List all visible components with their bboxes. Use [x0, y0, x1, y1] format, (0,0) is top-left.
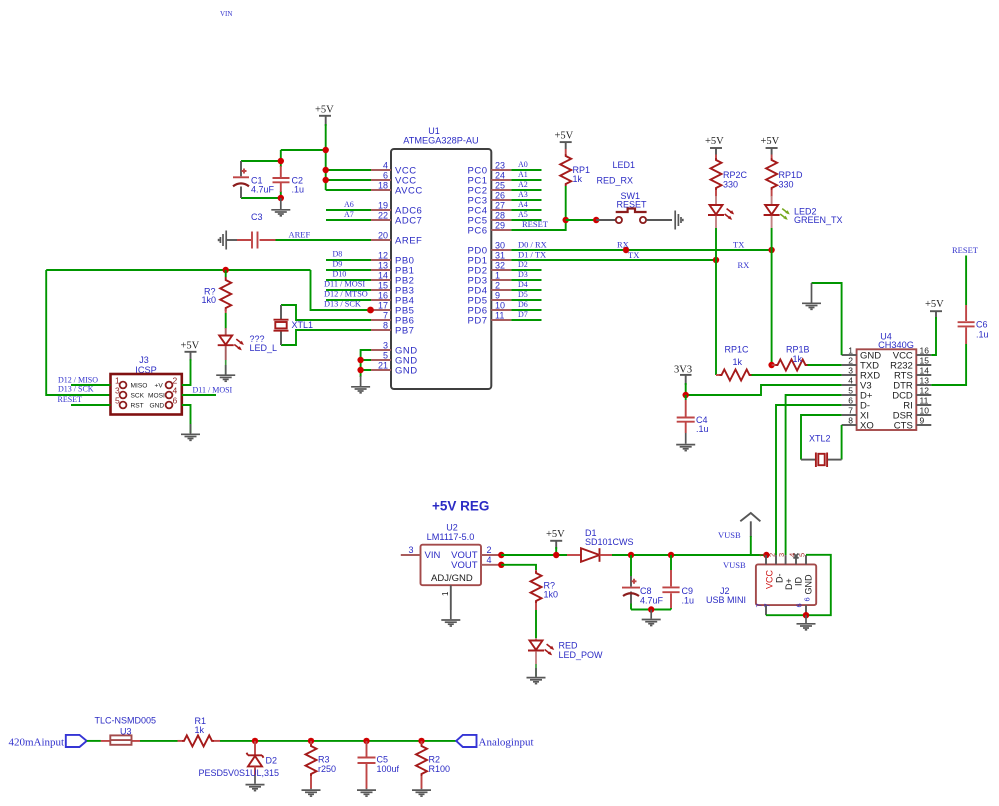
U4 pin 10 DSR	[893, 406, 932, 422]
LED LED1	[708, 196, 734, 260]
wire XI to XTL2	[801, 415, 842, 460]
svg-text:13: 13	[378, 261, 388, 271]
svg-text:GND: GND	[804, 574, 814, 595]
svg-text:1: 1	[441, 591, 450, 596]
svg-text:AREF: AREF	[395, 236, 422, 247]
svg-text:12: 12	[378, 251, 388, 261]
svg-text:CTS: CTS	[894, 421, 913, 432]
svg-text:LED1: LED1	[613, 160, 636, 170]
ground LED_L	[216, 360, 235, 381]
wire D12/MISO to J3	[58, 376, 111, 386]
ground U4 pin1	[802, 283, 821, 309]
wire RESET to J3	[58, 395, 111, 405]
wire SCK rail (pin13 LED)	[46, 270, 310, 395]
resistor R? 1k0 (LED_L)	[201, 270, 231, 329]
IC U4 CH340G	[857, 332, 917, 431]
svg-text:30: 30	[495, 241, 505, 251]
J2 pin 2 D-	[768, 553, 785, 583]
svg-text:3: 3	[408, 545, 413, 555]
ground J2	[797, 615, 816, 630]
ground C8/C9	[642, 610, 661, 626]
svg-text:PESD5V0S1UL,315: PESD5V0S1UL,315	[199, 768, 280, 778]
svg-text:1k: 1k	[573, 174, 583, 184]
svg-text:A6: A6	[344, 200, 354, 209]
junction SW1	[593, 217, 599, 223]
U1 pin 30 PD0	[468, 241, 512, 257]
ground AREF (sideways left)	[219, 231, 227, 250]
J2 pin 7 shield	[755, 603, 772, 615]
svg-text:RP1D: RP1D	[779, 170, 804, 180]
U1 pin 23 PC0	[468, 161, 512, 177]
junction J2 VCC	[763, 552, 769, 558]
junction rail R?	[223, 267, 229, 273]
svg-text:3: 3	[115, 386, 120, 396]
U1 pin 16 PB4	[371, 291, 414, 307]
capacitor C4 .1u	[677, 395, 709, 434]
svg-text:r250: r250	[318, 764, 336, 774]
svg-text:4.7uF: 4.7uF	[640, 596, 664, 606]
svg-text:RESET: RESET	[522, 219, 549, 229]
wire D8	[326, 250, 371, 261]
junction 3V3	[683, 392, 689, 398]
power +5V at RP1D	[761, 136, 780, 155]
svg-text:PB7: PB7	[395, 326, 414, 337]
U1 pin 22 ADC7	[371, 211, 422, 227]
svg-text:D5: D5	[518, 290, 528, 299]
svg-text:1k: 1k	[733, 357, 743, 367]
svg-text:+5V: +5V	[315, 105, 334, 116]
ground below C2	[271, 198, 290, 216]
svg-text:C8: C8	[640, 586, 652, 596]
U1 pin 15 PB3	[371, 281, 414, 297]
wire A3	[511, 190, 541, 200]
svg-text:RST: RST	[131, 402, 144, 409]
svg-text:TLC-NSMD005: TLC-NSMD005	[95, 716, 157, 726]
svg-text:VOUT: VOUT	[451, 560, 478, 571]
wire 3V3 to V3	[686, 383, 842, 395]
svg-text:3: 3	[848, 366, 853, 376]
svg-text:LM1117-5.0: LM1117-5.0	[427, 532, 475, 542]
svg-text:100uf: 100uf	[377, 764, 400, 774]
svg-text:26: 26	[495, 191, 505, 201]
svg-text:7: 7	[848, 406, 853, 416]
wire D5	[511, 290, 541, 300]
fuse U3 TLC-NSMD005	[95, 716, 157, 745]
U1 pin 17 PB5	[371, 301, 414, 317]
junction dots C2	[278, 158, 284, 164]
regulator U2 LM1117-5.0	[421, 523, 482, 586]
svg-text:+5V: +5V	[181, 341, 200, 352]
wire PC6 RESET to SW1	[511, 219, 565, 230]
LED LED_L	[218, 328, 277, 360]
resistor RP1C 1k	[716, 345, 842, 381]
ground LED_POW	[527, 664, 546, 684]
U1 pin 20 AREF	[371, 231, 422, 247]
svg-text:+5V: +5V	[705, 136, 724, 147]
U4 pin 5 D+	[842, 386, 873, 402]
svg-text:GND: GND	[150, 402, 165, 409]
wire A7	[326, 210, 371, 220]
resistor RP1D 330	[766, 155, 803, 197]
U1 pin 32 PD2	[468, 261, 512, 277]
svg-text:.1u: .1u	[976, 330, 989, 340]
diode D1 SD101CWS	[567, 528, 634, 562]
U1 pin 2 PD4	[468, 281, 512, 297]
U1 pin 18 AVCC	[371, 181, 423, 197]
svg-text:RESET: RESET	[58, 395, 83, 404]
svg-text:XTL2: XTL2	[809, 434, 831, 444]
junction C9	[668, 552, 674, 558]
svg-text:1: 1	[758, 553, 767, 557]
svg-text:24: 24	[495, 171, 505, 181]
svg-text:+5V: +5V	[546, 529, 565, 540]
ground U1	[351, 376, 370, 393]
junction PB5	[367, 307, 374, 314]
wire A4	[511, 200, 541, 210]
U4 pin 8 XO	[842, 416, 874, 432]
U4 pin 15 R232	[890, 356, 931, 372]
svg-text:2: 2	[487, 545, 492, 555]
U1 pin 19 ADC6	[371, 201, 422, 217]
U1 pin 11 PD7	[468, 311, 512, 327]
svg-text:J3: J3	[139, 355, 149, 365]
U1 pin 13 PB1	[371, 261, 414, 277]
U2 pin 4 VOUT	[481, 555, 501, 565]
U1 pin 12 PB0	[371, 251, 414, 267]
svg-text:USB MINI: USB MINI	[706, 595, 746, 605]
svg-text:3: 3	[383, 341, 388, 351]
U1 pin 26 PC3	[468, 191, 512, 207]
wire J3 MOSI out	[182, 386, 233, 396]
svg-text:10: 10	[495, 301, 505, 311]
power +5V at U4 VCC	[925, 299, 944, 319]
U1 pin 28 PC5	[468, 211, 512, 227]
U1 pin 21 GND	[371, 361, 418, 377]
wire A0	[511, 160, 541, 170]
svg-text:D-: D-	[775, 574, 785, 584]
svg-text:22: 22	[378, 211, 388, 221]
svg-text:A0: A0	[518, 160, 528, 169]
svg-text:D10: D10	[333, 270, 347, 279]
svg-text:RP1C: RP1C	[725, 345, 750, 355]
U2 pin 3 VIN	[401, 545, 421, 555]
U1 pin 25 PC2	[468, 181, 512, 197]
junction C5	[363, 738, 369, 744]
U1 pin 8 PB7	[371, 321, 414, 337]
svg-text:2: 2	[173, 376, 178, 386]
U4 pin 4 V3	[842, 376, 872, 392]
svg-text:CH340G: CH340G	[878, 340, 914, 350]
svg-text:A7: A7	[344, 210, 354, 219]
svg-text:4.7uF: 4.7uF	[251, 185, 275, 195]
crystal XTL1	[274, 305, 314, 345]
svg-text:D11 / MOSI: D11 / MOSI	[193, 386, 233, 395]
wire D6	[511, 300, 541, 310]
wire XO to XTL2	[841, 425, 843, 460]
svg-text:6: 6	[803, 597, 812, 601]
wire U4 GND hook	[812, 283, 842, 355]
svg-text:2: 2	[848, 356, 853, 366]
svg-text:330: 330	[723, 180, 738, 190]
svg-text:+5V: +5V	[925, 299, 944, 310]
U4 pin 14 RTS	[894, 366, 931, 382]
connector J2 USB MINI	[706, 564, 816, 605]
junction RX	[623, 247, 629, 253]
svg-text:6: 6	[848, 396, 853, 406]
svg-text:D4: D4	[518, 280, 528, 289]
svg-text:9: 9	[920, 416, 925, 426]
svg-text:1: 1	[495, 271, 500, 281]
svg-text:U1: U1	[428, 126, 440, 136]
wire A2	[511, 180, 541, 190]
svg-text:XTL1: XTL1	[292, 320, 314, 330]
LED LED_POW RED	[528, 638, 603, 664]
wire U1 GND bus	[361, 350, 371, 377]
svg-text:14: 14	[920, 366, 930, 376]
svg-text:TX: TX	[628, 250, 639, 260]
svg-text:15: 15	[378, 281, 388, 291]
svg-text:D+: D+	[784, 578, 794, 590]
U1 pin 6 VCC	[371, 171, 417, 187]
wire PD0 RX long	[511, 240, 771, 251]
power flag VUSB	[718, 513, 760, 555]
U2 pin 1 ADJ	[441, 585, 451, 610]
svg-text:D13 / SCK: D13 / SCK	[58, 385, 94, 394]
svg-text:8: 8	[848, 416, 853, 426]
svg-text:5: 5	[848, 386, 853, 396]
svg-text:D8: D8	[333, 250, 343, 259]
svg-text:1: 1	[115, 376, 120, 386]
ground SW1 (sideways right)	[675, 211, 683, 230]
svg-text:4: 4	[383, 161, 388, 171]
svg-text:6: 6	[795, 603, 804, 607]
U4 pin 7 XI	[842, 406, 869, 422]
resistor RP1B 1k	[772, 345, 842, 371]
wire D9	[326, 260, 371, 271]
LED LED2 GREEN_TX	[764, 196, 843, 250]
IC U1 ATMEGA328P-AU	[391, 126, 491, 389]
capacitor C6 .1u	[958, 305, 989, 344]
power +5V at J3	[181, 341, 200, 362]
wire D3	[511, 270, 541, 280]
ground D2	[246, 776, 265, 791]
wire AREF to U1 pin 20	[276, 239, 372, 241]
svg-text:4: 4	[487, 555, 492, 565]
wire port to fuse	[87, 740, 101, 742]
wire PD1 TX long	[511, 250, 749, 271]
svg-text:.1u: .1u	[292, 185, 305, 195]
svg-text:C9: C9	[682, 586, 694, 596]
svg-text:D12 / MISO: D12 / MISO	[58, 376, 98, 385]
U2 pin 2 VOUT	[481, 545, 501, 555]
wire XTL1 top bracket (PB6)	[281, 305, 371, 320]
junction SW1 left	[563, 217, 569, 223]
svg-text:RP2C: RP2C	[723, 170, 748, 180]
svg-text:5: 5	[798, 553, 807, 557]
U4 pin 6 D-	[842, 396, 870, 412]
svg-text:19: 19	[378, 201, 388, 211]
svg-text:16: 16	[378, 291, 388, 301]
U1 pin 14 PB2	[371, 271, 414, 287]
wire D4	[511, 280, 541, 290]
svg-text:4: 4	[173, 386, 178, 396]
U1 pin 27 PC4	[468, 201, 512, 217]
J2 pin 4 ID no-connect	[788, 553, 804, 586]
wire D10	[326, 270, 371, 281]
wire XTL1 bottom bracket (PB7)	[281, 330, 371, 345]
capacitor C9 .1u	[662, 555, 694, 610]
svg-text:D2: D2	[266, 756, 278, 766]
J2 pin 1 VCC	[758, 553, 775, 589]
wire C1 bracket	[241, 161, 281, 198]
svg-text:7: 7	[763, 603, 772, 607]
svg-text:ID: ID	[794, 576, 804, 586]
svg-text:VUSB: VUSB	[723, 560, 746, 570]
U1 pin 10 PD6	[468, 301, 512, 317]
U1 pin 4 VCC	[371, 161, 417, 177]
svg-text:6: 6	[173, 396, 178, 406]
ground C5	[357, 789, 376, 797]
junction C8/C9 ground	[648, 606, 654, 612]
svg-text:+V: +V	[155, 382, 164, 389]
svg-text:VUSB: VUSB	[718, 530, 741, 540]
switch SW1 RESET	[596, 191, 672, 223]
U4 pin 1 GND	[842, 346, 882, 362]
svg-text:11: 11	[920, 396, 929, 406]
wire C8 C9 bottom	[631, 609, 671, 611]
connector J3 ICSP	[111, 355, 182, 415]
svg-text:420mAinput: 420mAinput	[9, 736, 65, 748]
svg-text:6: 6	[383, 171, 388, 181]
svg-text:27: 27	[495, 201, 505, 211]
capacitor C3 (AREF)	[226, 212, 276, 249]
wire D1 to VUSB rail	[612, 554, 766, 556]
U1 pin 3 GND	[371, 341, 418, 357]
U4 pin 13 DTR	[893, 376, 931, 392]
ground R2	[412, 789, 431, 797]
ground C4	[676, 433, 695, 451]
svg-text:SCK: SCK	[131, 392, 145, 399]
svg-text:.1u: .1u	[682, 596, 695, 606]
wire TX column to RP1B	[771, 250, 773, 365]
port 420mAinput	[9, 735, 87, 748]
power +5V at RP2C	[705, 136, 724, 155]
svg-text:23: 23	[495, 161, 505, 171]
svg-text:3V3: 3V3	[674, 365, 692, 376]
wire RX column to RP1C	[715, 260, 717, 375]
svg-text:PD7: PD7	[468, 316, 488, 327]
wire analog rail	[220, 740, 456, 742]
svg-text:ADC7: ADC7	[395, 216, 422, 227]
junction +5V	[553, 552, 559, 558]
component labels LED1 RED_RX	[597, 160, 636, 186]
svg-text:+5V: +5V	[761, 136, 780, 147]
power +5V at RP1	[555, 131, 574, 150]
crystal XTL2	[801, 434, 842, 468]
J2 pin 5 GND	[798, 553, 814, 595]
junction R2	[418, 738, 424, 744]
wire A1	[511, 170, 541, 180]
svg-text:VCC: VCC	[765, 569, 775, 589]
svg-text:+5V: +5V	[555, 131, 574, 142]
svg-text:1: 1	[848, 346, 853, 356]
junction U2 VOUT2	[498, 552, 504, 558]
U4 pin 9 CTS	[894, 416, 932, 432]
svg-text:RESET: RESET	[952, 245, 979, 255]
J2 pin 3 D+	[777, 553, 794, 590]
svg-text:MOSI: MOSI	[148, 392, 165, 399]
svg-text:9: 9	[495, 291, 500, 301]
U4 pin 12 DCD	[892, 386, 931, 402]
U1 pin 29 PC6	[468, 221, 512, 237]
wire D2	[511, 260, 541, 270]
U4 pin 3 RXD	[842, 366, 881, 382]
svg-text:11: 11	[495, 311, 504, 321]
svg-text:14: 14	[378, 271, 388, 281]
svg-text:20: 20	[378, 231, 388, 241]
junction RP1B	[768, 362, 774, 368]
svg-text:XO: XO	[860, 421, 874, 432]
svg-text:D13 / SCK: D13 / SCK	[324, 300, 361, 309]
resistor R3 r250	[306, 741, 337, 789]
wire +5V rail to U1	[281, 124, 371, 190]
wire D13 / SCK from rail	[311, 270, 372, 310]
resistor RP2C 330	[711, 155, 748, 197]
svg-text:A5: A5	[518, 210, 528, 219]
wire D+ to J2	[786, 395, 842, 555]
wire A5	[511, 210, 541, 220]
svg-text:25: 25	[495, 181, 505, 191]
svg-text:C6: C6	[976, 320, 988, 330]
junction U1 GND	[357, 357, 363, 363]
wire D7	[511, 310, 541, 320]
svg-text:13: 13	[920, 376, 930, 386]
svg-text:D0 / RX: D0 / RX	[518, 240, 547, 250]
svg-text:5: 5	[383, 351, 388, 361]
svg-text:RED_RX: RED_RX	[597, 176, 634, 186]
svg-text:C5: C5	[377, 755, 389, 765]
wire R? branch	[501, 565, 536, 570]
U1 pin 7 PB6	[371, 311, 414, 327]
svg-text:GND: GND	[395, 366, 418, 377]
wire J2 GND loop	[766, 555, 831, 615]
wire +5V to VCC pin16	[931, 317, 936, 355]
capacitor C2	[273, 166, 305, 195]
svg-text:LED_L: LED_L	[250, 343, 278, 353]
svg-text:D12 / MTSO: D12 / MTSO	[324, 290, 368, 299]
J2 pin 6 shield	[795, 597, 812, 615]
svg-text:VIN: VIN	[220, 10, 232, 18]
svg-text:A3: A3	[518, 190, 528, 199]
svg-text:A4: A4	[518, 200, 528, 209]
svg-text:D6: D6	[518, 300, 528, 309]
junction D2	[252, 738, 258, 744]
svg-text:ADJ/GND: ADJ/GND	[431, 573, 473, 584]
ground J3	[181, 424, 200, 440]
svg-text:+5V REG: +5V REG	[432, 499, 489, 514]
wire to SW1	[566, 219, 597, 221]
svg-text:A1: A1	[518, 170, 528, 179]
svg-text:R2: R2	[429, 755, 441, 765]
U1 pin 31 PD1	[468, 251, 512, 267]
svg-text:D9: D9	[333, 260, 343, 269]
svg-text:RX: RX	[738, 260, 750, 270]
svg-text:18: 18	[378, 181, 388, 191]
wire RESET to C6	[965, 256, 967, 306]
ground U2 ADJ	[441, 610, 460, 626]
svg-text:2: 2	[495, 281, 500, 291]
U1 pin 1 PD3	[468, 271, 512, 287]
